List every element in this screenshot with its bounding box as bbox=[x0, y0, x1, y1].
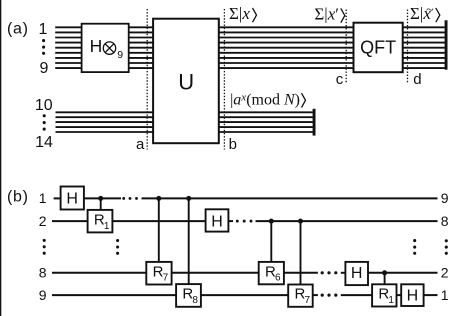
svg-text:Σ|x′: Σ|x′ bbox=[314, 5, 339, 24]
horizontal ellipsis wire9 bbox=[321, 294, 324, 297]
svg-text:H: H bbox=[351, 265, 363, 282]
wire qubit1 segments bbox=[54, 197, 61, 199]
svg-text:1: 1 bbox=[39, 190, 47, 206]
wire qubit2 segments bbox=[52, 220, 88, 222]
state label |a^x (mod N)> bbox=[230, 91, 305, 108]
svg-text:7: 7 bbox=[305, 295, 311, 306]
left vertical ellipsis bbox=[43, 239, 46, 242]
control dots bbox=[98, 196, 103, 201]
svg-text:(b): (b) bbox=[7, 188, 29, 205]
horizontal ellipsis wire8 bbox=[321, 271, 324, 274]
terminator bar lower register bbox=[313, 109, 316, 136]
state label Sigma|x~> at d bbox=[410, 3, 440, 23]
svg-text:d: d bbox=[413, 71, 421, 88]
svg-text:9: 9 bbox=[39, 287, 47, 303]
svg-text:QFT: QFT bbox=[360, 38, 396, 58]
svg-text:H: H bbox=[211, 213, 223, 230]
svg-text:8: 8 bbox=[39, 265, 47, 281]
ellipsis dots qubits 2-8 bbox=[42, 39, 45, 42]
vertical ellipsis below R1 bbox=[116, 239, 119, 242]
measurement bar top register bbox=[445, 20, 448, 69]
gate H on qubit2 bbox=[206, 209, 229, 231]
left column rule bbox=[0, 0, 1, 316]
svg-text:H: H bbox=[90, 36, 103, 56]
svg-text:c: c bbox=[336, 71, 344, 88]
top register wires (9) left of H box bbox=[55, 26, 81, 28]
wire qubit9 segments bbox=[52, 294, 176, 296]
svg-text:b: b bbox=[229, 136, 237, 153]
svg-text:9: 9 bbox=[117, 49, 123, 61]
ellipsis dots qubits 11-13 bbox=[43, 114, 46, 117]
svg-text:2: 2 bbox=[39, 213, 47, 229]
svg-text:U: U bbox=[178, 70, 194, 95]
top register wires between U and QFT bbox=[219, 26, 354, 28]
svg-text:6: 6 bbox=[275, 273, 281, 284]
gate U (modular exponentiation) bbox=[153, 19, 219, 144]
gate H tensor 9 bbox=[82, 24, 129, 72]
wire qubit8 segments bbox=[52, 272, 146, 274]
svg-text:|ax(mod N): |ax(mod N) bbox=[230, 91, 300, 108]
control-target connector wires bbox=[100, 198, 102, 210]
svg-text:H: H bbox=[407, 287, 419, 304]
svg-text:2: 2 bbox=[441, 265, 449, 281]
svg-text:8: 8 bbox=[192, 295, 198, 306]
gate H on qubit8 bbox=[345, 262, 368, 285]
svg-text:1: 1 bbox=[441, 287, 449, 303]
state label Sigma|x> at b bbox=[229, 4, 257, 23]
svg-text:9: 9 bbox=[441, 190, 449, 206]
gate H on qubit1 bbox=[61, 187, 84, 210]
horizontal ellipsis wire1 bbox=[122, 197, 125, 200]
svg-text:7: 7 bbox=[163, 273, 169, 284]
gate QFT bbox=[354, 23, 403, 72]
svg-text:~: ~ bbox=[426, 3, 434, 18]
svg-text:8: 8 bbox=[441, 213, 449, 229]
gate H on qubit9 bbox=[401, 284, 423, 306]
svg-text:H: H bbox=[66, 191, 78, 208]
top register wires between H box and U bbox=[129, 26, 153, 28]
dotted section line c bbox=[345, 10, 347, 83]
svg-text:(a): (a) bbox=[7, 21, 29, 38]
dotted section line d bbox=[407, 10, 409, 83]
dotted section line a bbox=[146, 9, 148, 150]
lower register wires (5) left of U bbox=[56, 111, 154, 113]
svg-text:1: 1 bbox=[388, 295, 394, 306]
gate R7 (q2 ctrl, q9 target) bbox=[288, 285, 313, 307]
gate R1 (q8 ctrl, q9 target) bbox=[372, 284, 396, 306]
gate R8 (q1 ctrl, q9 target) bbox=[176, 284, 201, 307]
gate R7 (q1 ctrl, q8 target) bbox=[146, 262, 171, 285]
svg-text:a: a bbox=[136, 136, 145, 153]
gate R6 (q2 ctrl, q8 target) bbox=[259, 262, 284, 284]
svg-text:10: 10 bbox=[35, 97, 53, 114]
top register wires between QFT and measurement bar bbox=[403, 26, 445, 28]
horizontal ellipsis wire2 bbox=[236, 220, 239, 223]
svg-text:14: 14 bbox=[35, 134, 53, 151]
svg-text:9: 9 bbox=[39, 60, 48, 77]
svg-text:1: 1 bbox=[104, 221, 110, 232]
lower register wires between U and terminator bar bbox=[219, 111, 313, 113]
svg-text:Σ|x: Σ|x bbox=[229, 4, 250, 23]
right vertical ellipsis (wires) bbox=[413, 239, 416, 242]
dotted section line b bbox=[223, 9, 225, 150]
gate R1 (q1 ctrl, q2 target) bbox=[88, 210, 113, 233]
svg-text:1: 1 bbox=[39, 21, 48, 38]
right vertical ellipsis (labels) bbox=[445, 239, 448, 242]
state label Sigma|x'> at c bbox=[314, 5, 344, 24]
